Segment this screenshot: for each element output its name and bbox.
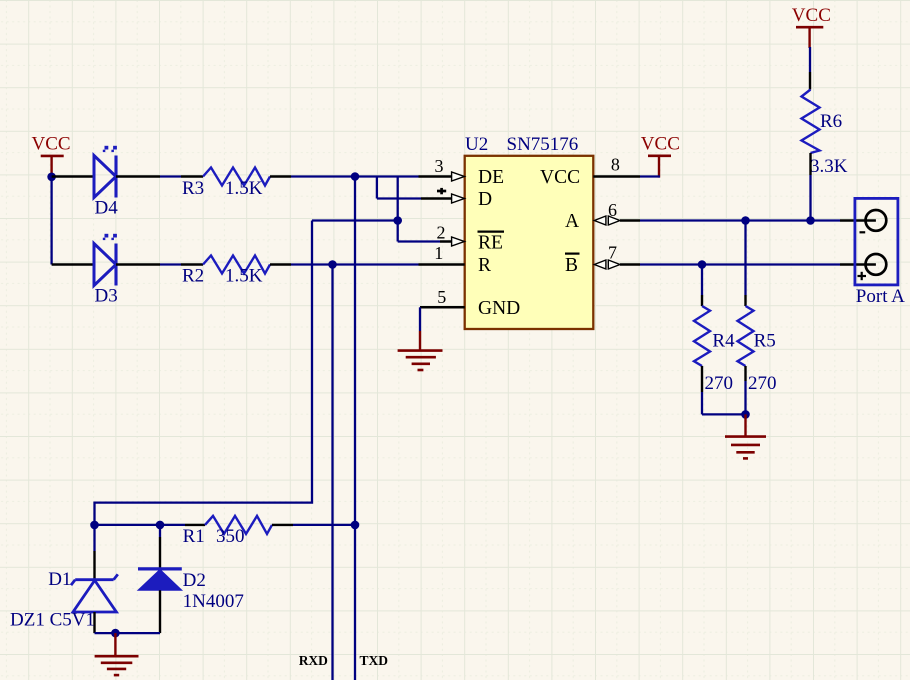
svg-text:D1: D1 [48,569,71,590]
junction dot (R6 bottom on A row) [806,216,815,225]
svg-text:TXD: TXD [360,653,389,668]
wire pin6 A row to Port A [640,219,840,221]
svg-text:A: A [565,211,579,232]
junction dot (R5 top on A row) [741,216,750,225]
svg-text:RE: RE [478,233,503,254]
op IC U2 SN75176 body [465,134,594,329]
svg-text:8: 8 [611,154,620,174]
wire R4 bottom to R5 bottom [702,413,746,415]
junction dot (D2 top on R1 row) [156,521,165,530]
svg-text:7: 7 [608,242,617,262]
resistor R1 350 [183,516,272,547]
wire VCC to R6 [809,47,811,72]
wire row2 to D3 anode [52,263,94,265]
svg-text:1: 1 [434,243,443,263]
svg-text:R3: R3 [182,178,204,199]
pin 8 VCC [540,154,640,188]
svg-text:3: 3 [435,156,444,176]
svg-text:1.5K: 1.5K [225,265,263,286]
svg-text:U2: U2 [465,134,488,155]
svg-text:VCC: VCC [540,167,580,188]
wire DE-RE tie vertical [397,177,399,242]
power symbol VCC (top right) [792,5,831,48]
resistor R6 3.3K [802,90,848,177]
svg-text:RXD: RXD [299,653,328,668]
svg-text:350: 350 [216,526,245,547]
resistor R3 1.5K [182,168,270,199]
wire R1 row [95,524,186,526]
svg-text:1.5K: 1.5K [225,178,263,199]
svg-text:D2: D2 [183,570,206,591]
svg-text:VCC: VCC [641,134,680,155]
svg-text:3.3K: 3.3K [810,156,848,177]
wire pin5 to ground [420,306,465,309]
resistor R2 1.5K [182,256,270,287]
wire RE row [398,240,440,242]
wire step row1 down to D pin row [376,177,378,199]
wire pin7 B row to Port A [640,263,840,265]
svg-text:R2: R2 [182,265,204,286]
wire R3 to pin3 (DE) [270,175,291,177]
svg-text:VCC: VCC [32,134,71,155]
resistor R4 270 [694,265,735,415]
wire pin8 to VCC stem [640,175,660,177]
wire control branch horizontal [312,219,398,221]
wire row1 to D4 anode [52,175,94,177]
svg-text:SN75176: SN75176 [507,134,579,155]
svg-text:D: D [478,189,492,210]
svg-text:1N4007: 1N4007 [183,591,244,612]
pin 1 R [419,243,492,276]
wire RXD vertical [331,265,333,680]
wire TXD vertical [354,177,356,680]
ground (earth) bottom left [95,633,139,675]
svg-text:DE: DE [478,167,504,188]
wire R1 to TXD line [272,524,293,526]
svg-text:R4: R4 [712,331,735,352]
svg-text:270: 270 [748,373,777,394]
junction dot (ground stem on bottom wire) [111,629,120,638]
junction dot (RXD tap on row2) [328,260,337,269]
wire control vertical down [95,221,313,525]
svg-text:5: 5 [437,287,446,307]
power symbol VCC (top left) [32,134,71,177]
diode D2 1N4007 [138,525,244,633]
junction dot (VCC / D4 row branch) [47,173,56,182]
diode D4 (LED) [94,146,118,219]
diode D3 (LED) [94,234,118,307]
wire D pin row [377,197,421,199]
junction dot (R1 on TXD line) [351,521,360,530]
junction dot (left corner / D1 top) [90,521,99,530]
ground (earth) at pin5 [398,331,443,370]
wire VCC column down to D3 row [50,177,52,265]
svg-text:R5: R5 [754,331,776,352]
pin 2 RE [437,223,505,254]
svg-text:R: R [478,255,491,276]
wire D1 anode to D2 anode [95,632,161,634]
wire D3 cathode to R2 [116,263,160,265]
pin 5 GND [420,287,520,319]
wire R6 to A row [809,153,811,175]
svg-text:D3: D3 [95,286,118,307]
wire R2 to pin1 (R) [270,263,291,265]
ground (earth) below R4/R5 [725,414,766,458]
junction dot (R4 top on B row) [698,260,707,269]
svg-text:B: B [565,255,578,276]
svg-text:GND: GND [478,298,520,319]
svg-text:D4: D4 [95,198,119,219]
svg-text:R6: R6 [820,111,842,132]
svg-text:270: 270 [705,373,734,394]
svg-text:R1: R1 [183,526,205,547]
svg-text:VCC: VCC [792,5,831,26]
pin 6 A [565,200,640,232]
diode D1 (zener DZ1 C5V1) [10,525,118,633]
resistor R5 270 [738,221,777,415]
connector Port A [855,198,905,306]
pin 4 D (number shown as +) [421,188,492,210]
junction dot (R4/R5 bottom) [741,410,750,419]
power symbol VCC (at pin 8) [641,134,680,178]
svg-text:6: 6 [608,200,617,220]
pin 7 B [565,242,640,276]
svg-text:2: 2 [437,223,446,243]
svg-text:Port A: Port A [856,286,905,307]
svg-text:DZ1 C5V1: DZ1 C5V1 [10,610,95,631]
junction dot (control line joins DE/RE tie) [393,216,402,225]
junction dot (TXD tap on row1) [351,172,360,181]
pin 3 DE [419,156,505,188]
wire D4 cathode to R3 [116,175,160,177]
